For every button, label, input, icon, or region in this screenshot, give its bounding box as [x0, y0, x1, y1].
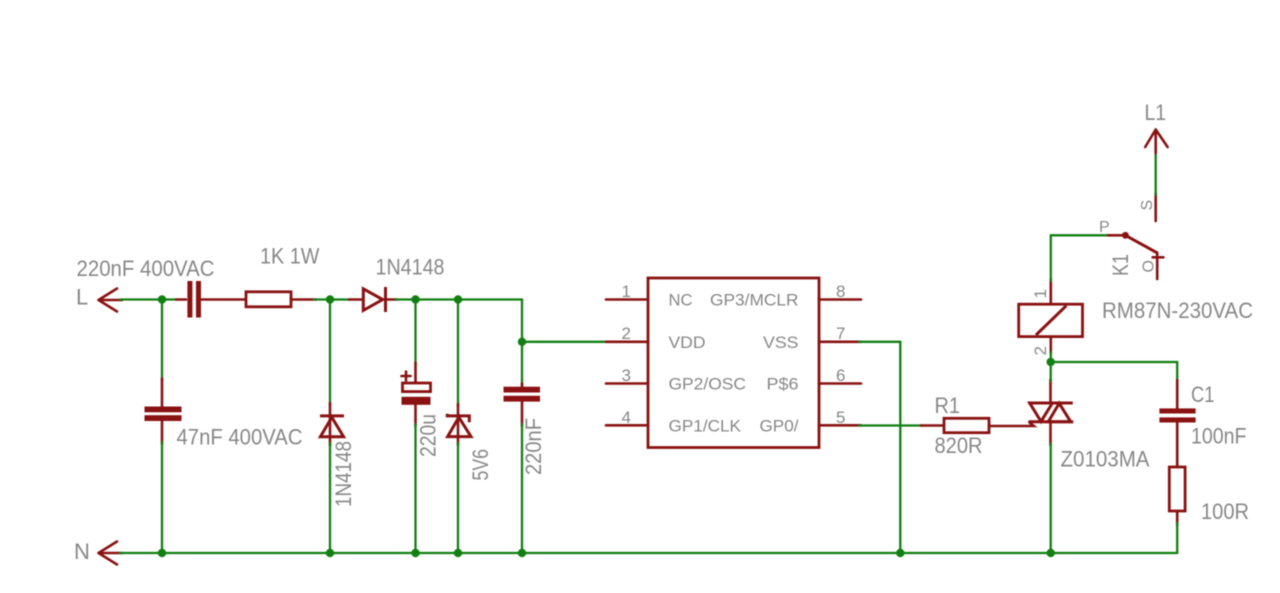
svg-text:820R: 820R	[935, 433, 983, 458]
svg-text:1: 1	[622, 282, 631, 301]
net L off-page arrow	[99, 289, 123, 312]
junction N/zener	[454, 549, 462, 557]
svg-text:NC: NC	[669, 291, 693, 310]
pin 2	[606, 340, 648, 343]
capacitor C1 100nF	[1159, 380, 1195, 468]
svg-text:K1: K1	[1108, 254, 1133, 276]
svg-text:100R: 100R	[1201, 499, 1249, 524]
svg-text:GP0/: GP0/	[760, 416, 799, 435]
wire diode to junction	[396, 298, 416, 300]
diode 1N4148 horizontal	[349, 287, 397, 312]
switch pivot dot	[1122, 232, 1129, 239]
svg-text:S: S	[1139, 200, 1156, 211]
svg-text:L: L	[76, 285, 88, 310]
junction D-branch	[326, 295, 334, 303]
svg-text:100nF: 100nF	[1191, 424, 1247, 449]
resistor 1K 1W	[246, 292, 316, 307]
svg-text:6: 6	[836, 366, 845, 385]
wire elco junction to zener junction	[416, 298, 459, 300]
svg-text:7: 7	[836, 324, 845, 343]
wire to D1 junction	[314, 298, 330, 300]
switch K1 contact P lead	[1108, 234, 1124, 237]
pin 6	[819, 382, 861, 385]
wire VDD junction down to 220nF	[521, 342, 523, 385]
zener diode 5V6	[447, 404, 471, 445]
triac Z0103MA	[1028, 380, 1073, 446]
net L1 off-page arrow	[1145, 130, 1167, 154]
svg-text:3: 3	[622, 366, 631, 385]
junction elco branch	[411, 295, 419, 303]
svg-text:Z0103MA: Z0103MA	[1061, 447, 1150, 472]
wire 47nF to N rail	[161, 442, 163, 553]
svg-text:220u: 220u	[416, 414, 441, 457]
resistor R1 820R	[921, 418, 1034, 432]
junction zener branch	[454, 295, 462, 303]
svg-text:R1: R1	[935, 393, 961, 418]
switch contact S stub	[1154, 194, 1157, 222]
wire pin 7 to N rail	[859, 342, 900, 553]
svg-text:VDD: VDD	[669, 333, 706, 352]
svg-text:L1: L1	[1145, 100, 1167, 125]
wire 220nF to N rail	[521, 424, 523, 553]
junction N/diode	[326, 549, 334, 557]
svg-text:1K 1W: 1K 1W	[260, 244, 320, 269]
junction N/220nF	[518, 549, 526, 557]
svg-text:N: N	[74, 539, 90, 564]
wire triac junction to C1 branch	[1051, 362, 1178, 382]
junction N/pin7	[896, 549, 904, 557]
capacitor 220nF 400VAC	[176, 281, 246, 318]
wire pin 5 to R1	[859, 424, 923, 426]
svg-text:GP3/MCLR: GP3/MCLR	[710, 291, 799, 310]
capacitor 220nF (VDD)	[504, 384, 541, 427]
pin 1	[606, 298, 648, 301]
svg-text:1: 1	[1031, 289, 1050, 298]
svg-text:4: 4	[622, 408, 631, 427]
capacitor 47nF 400VAC	[145, 379, 182, 445]
junction N/triac	[1047, 549, 1055, 557]
pin 4	[606, 424, 648, 427]
diode 1N4148 vertical	[320, 403, 344, 445]
svg-text:220nF: 220nF	[521, 418, 546, 475]
svg-text:O: O	[1141, 260, 1158, 272]
svg-text:47nF 400VAC: 47nF 400VAC	[177, 425, 303, 450]
svg-text:5V6: 5V6	[468, 449, 493, 481]
wire elco to N rail	[414, 424, 416, 553]
capacitor 220u electrolytic	[402, 363, 431, 427]
svg-text:2: 2	[1031, 346, 1050, 355]
net N off-page arrow	[99, 542, 123, 565]
junction VDD node	[518, 338, 526, 346]
svg-text:1N4148: 1N4148	[331, 441, 356, 507]
wire 47nF branch upper	[161, 300, 163, 381]
wire 100R to N rail	[1176, 523, 1178, 553]
svg-text:C1: C1	[1191, 382, 1215, 407]
junction L/47nF	[158, 295, 166, 303]
svg-text:GP1/CLK: GP1/CLK	[669, 416, 742, 435]
svg-text:2: 2	[622, 324, 631, 343]
switch contact O	[1153, 253, 1164, 279]
junction N/elco	[411, 549, 419, 557]
pin 5	[819, 424, 861, 427]
pin 8	[819, 298, 861, 301]
pin 3	[606, 382, 648, 385]
IC U1 body	[648, 278, 819, 448]
wire diode to N rail	[329, 443, 331, 553]
junction relay pin2 node	[1047, 358, 1055, 366]
svg-text:VSS: VSS	[763, 333, 799, 352]
switch blade K1	[1125, 235, 1157, 253]
relay K1 coil	[1019, 279, 1083, 354]
svg-text:1N4148: 1N4148	[376, 255, 445, 280]
wire N rail	[120, 552, 1177, 554]
svg-text:GP2/OSC: GP2/OSC	[669, 375, 747, 394]
wire L rail left	[120, 298, 176, 300]
svg-text:220nF 400VAC: 220nF 400VAC	[77, 256, 215, 281]
junction N/47nF	[158, 549, 166, 557]
wire diode branch upper	[329, 300, 331, 406]
svg-text:P$6: P$6	[767, 375, 799, 394]
wire triac top to junction	[1050, 362, 1052, 381]
wire elco branch upper	[414, 300, 416, 365]
svg-text:P: P	[1099, 219, 1110, 236]
wire S contact up	[1155, 152, 1157, 195]
resistor 100R vertical	[1169, 467, 1185, 525]
wire triac bottom to N rail	[1050, 444, 1052, 554]
svg-text:5: 5	[836, 408, 845, 427]
pin 7	[819, 340, 861, 343]
wire VDD junction to IC pin 2	[522, 341, 607, 343]
wire relay pin1 up and to switch P	[1051, 235, 1110, 362]
svg-text:RM87N-230VAC: RM87N-230VAC	[1102, 298, 1253, 323]
wire junction to diode	[330, 298, 350, 300]
wire zener branch upper	[457, 300, 459, 407]
wire to corner and down to VDD junction	[458, 300, 522, 342]
svg-text:8: 8	[836, 282, 845, 301]
wire zener to N rail	[457, 443, 459, 553]
